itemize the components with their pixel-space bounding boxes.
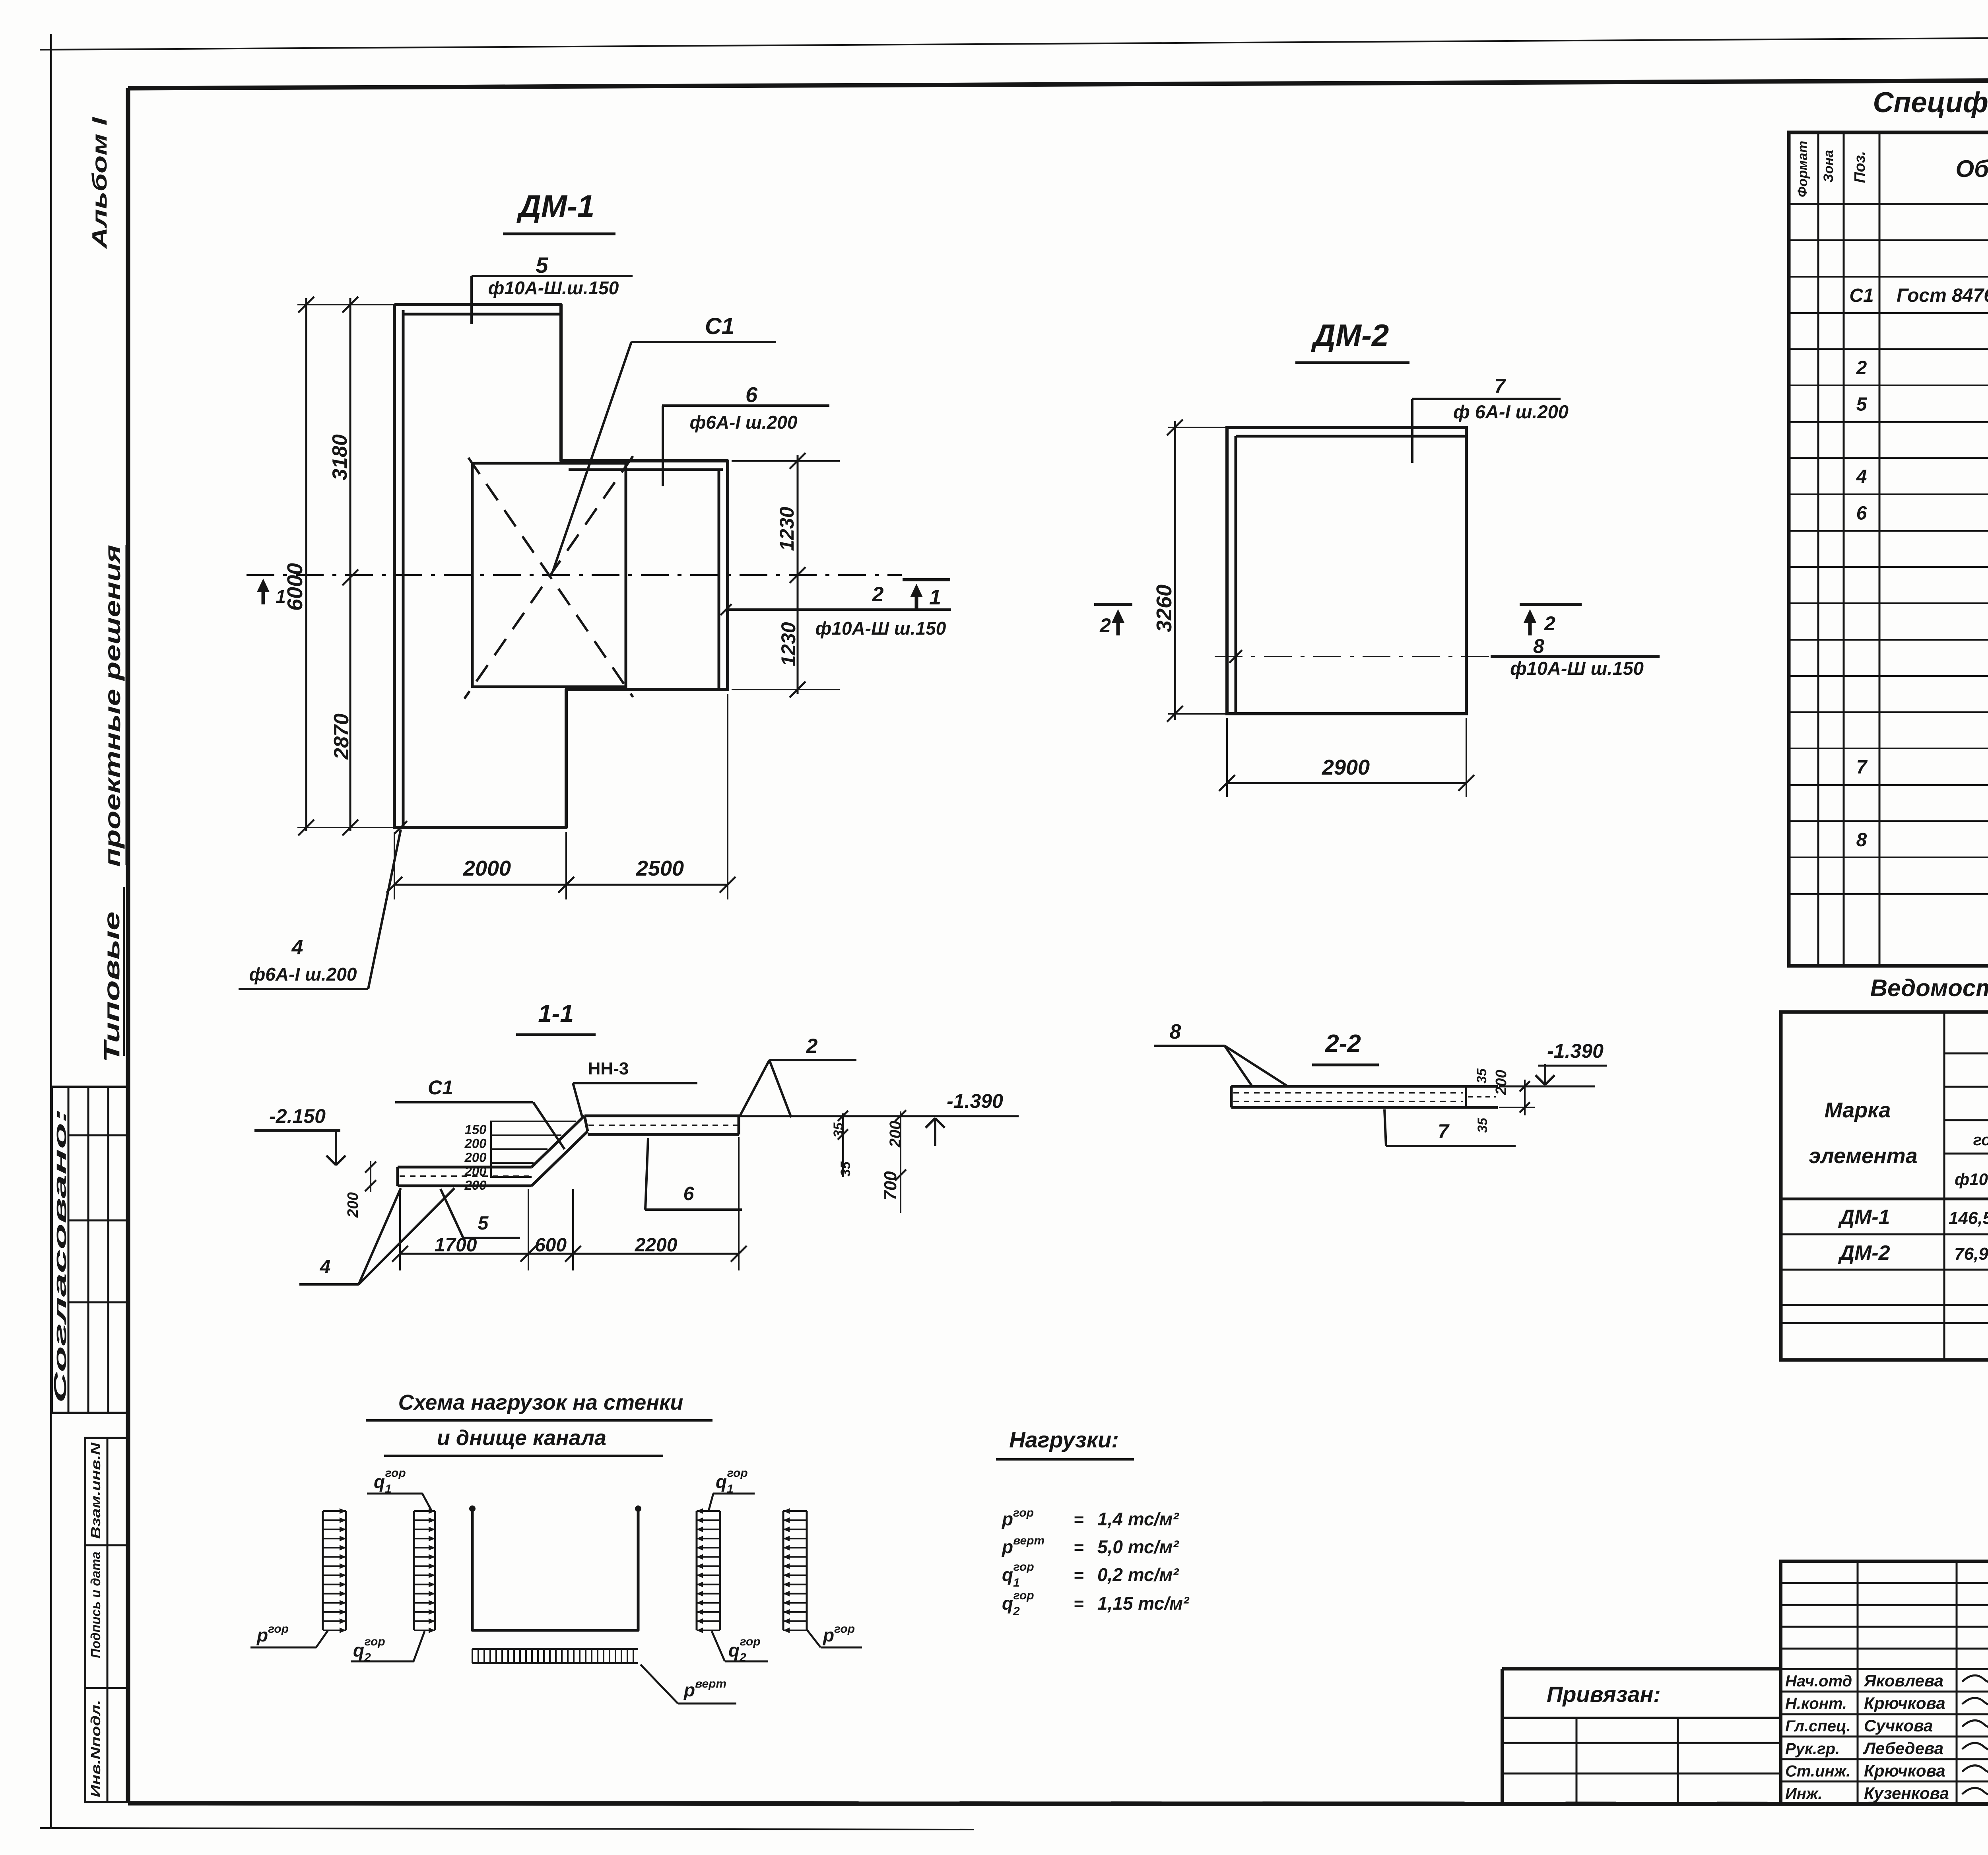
load bar q right: [696, 1511, 698, 1630]
dim 6000 left: [305, 298, 307, 831]
svg-text:и днище канала: и днище канала: [437, 1426, 606, 1450]
svg-text:200: 200: [464, 1178, 487, 1193]
svg-text:Гл.спец.: Гл.спец.: [1785, 1717, 1851, 1735]
load strip p_vert: [472, 1648, 638, 1650]
svg-text:Рук.гр.: Рук.гр.: [1785, 1740, 1840, 1758]
svg-text:ф10А-Ш ш.150: ф10А-Ш ш.150: [815, 618, 946, 639]
svg-text:600: 600: [535, 1235, 567, 1256]
dim 2000/2500 bottom: [394, 884, 728, 886]
svg-text:ф10А-Ш.ш.150: ф10А-Ш.ш.150: [488, 278, 619, 298]
svg-text:Ведомость расхода стали на: Ведомость расхода стали на элемент, кг: [1870, 975, 1988, 1001]
svg-text:35: 35: [838, 1161, 853, 1177]
svg-text:1,15 тс/м²: 1,15 тс/м²: [1097, 1593, 1190, 1614]
svg-text:1-1: 1-1: [538, 1000, 574, 1028]
section mark 1 right: [903, 578, 950, 581]
svg-text:35: 35: [1474, 1068, 1489, 1084]
svg-text:5: 5: [1856, 394, 1868, 415]
mesh C1 rectangle: [472, 463, 626, 687]
rebar 4 left double line: [402, 310, 405, 827]
svg-text:5: 5: [536, 253, 548, 278]
svg-text:700: 700: [881, 1171, 900, 1200]
svg-text:ДМ-1: ДМ-1: [1838, 1206, 1890, 1229]
svg-text:Нагрузки:: Нагрузки:: [1009, 1427, 1119, 1452]
svg-text:ДМ-2: ДМ-2: [1311, 318, 1389, 353]
svg-text:С1: С1: [1849, 285, 1873, 306]
svg-text:ДМ-1: ДМ-1: [516, 188, 595, 223]
svg-text:2870: 2870: [330, 713, 353, 760]
svg-text:150: 150: [464, 1122, 487, 1137]
svg-text:ф 6А-I ш.200: ф 6А-I ш.200: [1453, 401, 1569, 422]
svg-text:3180: 3180: [328, 434, 351, 480]
dim 2900: [1227, 782, 1466, 784]
extension lines top/bottom left: [297, 304, 398, 305]
svg-text:Инж.: Инж.: [1785, 1785, 1823, 1803]
svg-text:2000: 2000: [463, 857, 511, 880]
svg-text:Привязан:: Привязан:: [1547, 1682, 1661, 1707]
svg-text:200: 200: [887, 1121, 904, 1148]
svg-text:2900: 2900: [1322, 756, 1370, 779]
svg-text:Типовые: Типовые: [99, 911, 124, 1062]
svg-text:ф6А-I ш.200: ф6А-I ш.200: [690, 412, 798, 433]
vedomost grid: [1781, 1012, 1988, 1360]
svg-text:С1: С1: [705, 313, 734, 339]
svg-text:Ст.инж.: Ст.инж.: [1785, 1762, 1850, 1780]
section mark 2 left: [1094, 603, 1132, 606]
centerline axis 2-2: [1215, 656, 1491, 657]
privyazan box: [1502, 1667, 1781, 1670]
svg-text:Н.конт.: Н.конт.: [1785, 1695, 1847, 1713]
svg-text:Кузенкова: Кузенкова: [1864, 1784, 1949, 1803]
svg-text:Формат: Формат: [1795, 141, 1810, 197]
svg-text:1230: 1230: [776, 507, 798, 551]
svg-text:1,4 тс/м²: 1,4 тс/м²: [1097, 1509, 1179, 1529]
svg-text:7: 7: [1438, 1120, 1450, 1142]
svg-text:ДМ-2: ДМ-2: [1838, 1241, 1890, 1265]
svg-text:ф10А-Ш ш.150: ф10А-Ш ш.150: [1510, 658, 1644, 679]
svg-text:4: 4: [320, 1257, 331, 1278]
section 2-2 slab: [1231, 1085, 1498, 1088]
centerline axis 1-1: [247, 574, 902, 576]
svg-text:2: 2: [1856, 357, 1867, 379]
svg-text:Согласовано:: Согласовано:: [50, 1109, 70, 1403]
svg-text:2-2: 2-2: [1325, 1030, 1361, 1057]
svg-text:2500: 2500: [636, 857, 684, 880]
svg-text:8: 8: [1856, 829, 1867, 851]
svg-text:6: 6: [1856, 503, 1867, 524]
svg-text:8: 8: [1170, 1020, 1181, 1043]
rebar 7 top double line: [1236, 435, 1466, 438]
section 1-1 right slab: [584, 1115, 739, 1117]
mesh C1 diagonals: [468, 458, 633, 697]
svg-text:=: =: [1074, 1510, 1084, 1529]
svg-text:НН-3: НН-3: [588, 1059, 629, 1078]
rebar 2 right double line: [718, 470, 720, 690]
plan DM-2 outline: [1227, 427, 1466, 714]
svg-text:Подпись и дата: Подпись и дата: [88, 1552, 103, 1658]
svg-text:1700: 1700: [435, 1235, 477, 1256]
sheet outer edge: [50, 34, 52, 1829]
section mark 2 right: [1520, 603, 1582, 606]
svg-text:ф10: ф10: [1955, 1170, 1988, 1189]
section 1-1 slope: [532, 1116, 584, 1167]
svg-text:гост 5781-82: гост 5781-82: [1973, 1131, 1988, 1149]
channel U: [472, 1509, 638, 1630]
svg-text:Схема нагрузок на стенки: Схема нагрузок на стенки: [398, 1391, 683, 1414]
svg-text:3260: 3260: [1152, 585, 1176, 632]
svg-text:4: 4: [291, 936, 303, 959]
svg-text:=: =: [1074, 1566, 1084, 1585]
svg-text:-1.390: -1.390: [1547, 1040, 1604, 1062]
main frame: [128, 78, 1988, 88]
dim 3180/2870: [349, 298, 351, 831]
dim 3260: [1174, 421, 1176, 720]
svg-text:6: 6: [745, 383, 758, 407]
title block signature table: [1781, 1561, 1988, 1804]
svg-text:Сучкова: Сучкова: [1864, 1716, 1933, 1735]
svg-text:200: 200: [464, 1150, 487, 1165]
svg-text:Обозначение: Обозначение: [1955, 155, 1988, 182]
svg-text:35: 35: [831, 1122, 846, 1138]
svg-text:5: 5: [478, 1213, 489, 1234]
spec table grid: [1789, 132, 1988, 966]
svg-text:2200: 2200: [635, 1235, 678, 1256]
svg-text:1230: 1230: [777, 622, 800, 666]
svg-text:7: 7: [1856, 757, 1868, 778]
svg-text:Нач.отд: Нач.отд: [1785, 1672, 1852, 1690]
svg-text:Альбом I: Альбом I: [88, 117, 111, 250]
svg-text:Крючкова: Крючкова: [1864, 1761, 1945, 1780]
svg-text:ф6А-I ш.200: ф6А-I ш.200: [249, 964, 357, 985]
svg-text:=: =: [1074, 1594, 1084, 1614]
svg-text:8: 8: [1533, 635, 1544, 657]
svg-text:2: 2: [1544, 612, 1555, 635]
svg-text:Крючкова: Крючкова: [1864, 1694, 1945, 1713]
svg-text:С1: С1: [428, 1076, 453, 1099]
svg-text:200: 200: [1493, 1070, 1510, 1095]
svg-text:5,0 тс/м²: 5,0 тс/м²: [1097, 1536, 1179, 1557]
svg-text:146,5: 146,5: [1949, 1208, 1988, 1228]
svg-text:Гост 8476 - 78*: Гост 8476 - 78*: [1897, 285, 1988, 306]
load bar q left: [413, 1511, 415, 1630]
rebar 6 double line: [569, 468, 723, 471]
svg-text:2: 2: [806, 1035, 818, 1058]
svg-text:4: 4: [1856, 466, 1867, 488]
svg-text:Взам.инв.N: Взам.инв.N: [88, 1442, 103, 1539]
svg-text:Марка: Марка: [1825, 1098, 1891, 1122]
svg-text:проектные решения: проектные решения: [100, 545, 125, 867]
svg-text:35: 35: [1475, 1117, 1490, 1133]
svg-text:элемента: элемента: [1809, 1144, 1917, 1168]
section mark 1 left: [262, 583, 265, 604]
svg-text:76,9: 76,9: [1954, 1244, 1988, 1264]
svg-text:Спецификация на днища ДМ-1 ÷ Д: Спецификация на днища ДМ-1 ÷ ДМ-2: [1873, 87, 1988, 118]
stamp boxes vzam inv / podpis i data / inv podl: [85, 1438, 128, 1802]
svg-text:200: 200: [345, 1192, 361, 1218]
svg-text:-1.390: -1.390: [947, 1090, 1003, 1112]
soglasovano block: [52, 1087, 128, 1413]
svg-text:-2.150: -2.150: [269, 1105, 326, 1127]
svg-text:2: 2: [872, 583, 884, 606]
svg-text:6: 6: [683, 1183, 694, 1204]
svg-text:Зона: Зона: [1821, 150, 1836, 183]
svg-text:=: =: [1074, 1538, 1084, 1557]
svg-text:Лебедева: Лебедева: [1863, 1739, 1943, 1758]
svg-text:200: 200: [464, 1136, 487, 1151]
svg-text:2: 2: [1099, 614, 1111, 637]
svg-text:6000: 6000: [283, 563, 307, 611]
svg-text:7: 7: [1494, 375, 1506, 397]
svg-text:1: 1: [929, 585, 941, 609]
load bar p_hor right: [782, 1511, 784, 1630]
section 1-1 left slab: [398, 1166, 532, 1169]
svg-text:Яковлева: Яковлева: [1864, 1671, 1943, 1690]
dim 1230/1230 right: [797, 455, 799, 694]
svg-text:200: 200: [464, 1164, 487, 1179]
svg-text:Инв.Nподл.: Инв.Nподл.: [88, 1700, 103, 1797]
plan DM-1 outline: [394, 305, 728, 827]
bottom dims 1700/600/2200: [400, 1253, 739, 1255]
rebar 5 top double line: [403, 313, 561, 316]
rebar left double line: [1235, 436, 1237, 714]
svg-text:0,2 тс/м²: 0,2 тс/м²: [1097, 1564, 1179, 1585]
load bar p_hor left: [322, 1511, 324, 1630]
svg-text:Поз.: Поз.: [1852, 151, 1868, 183]
